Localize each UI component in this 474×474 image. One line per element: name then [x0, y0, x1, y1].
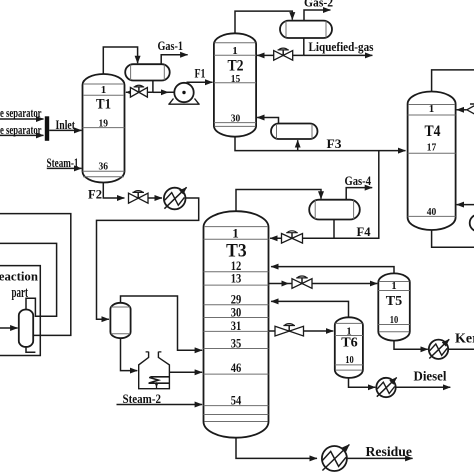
- wire Residue out: [348, 457, 413, 459]
- wire T4 bottoms: [432, 230, 474, 247]
- wire Gas-1: [161, 55, 187, 64]
- wire F3 up into D3: [297, 140, 299, 150]
- exchanger E1: [164, 187, 187, 209]
- svg-text:1: 1: [429, 103, 435, 115]
- drum D3 reboiler: [271, 124, 318, 140]
- wire F1: [187, 81, 213, 83]
- svg-text:30: 30: [231, 113, 241, 125]
- wire Gas-4: [346, 188, 372, 200]
- reaction part box: [0, 266, 40, 356]
- svg-text:Steam-2: Steam-2: [123, 392, 162, 406]
- svg-text:T5: T5: [386, 294, 403, 309]
- column T5: [378, 273, 410, 340]
- svg-text:e separator: e separator: [0, 106, 42, 120]
- wire V top vapor to T3 tray 35: [121, 296, 203, 350]
- svg-text:F4: F4: [357, 225, 372, 239]
- separator feed arrow 2: [0, 134, 44, 136]
- wire Gas-2: [304, 10, 330, 21]
- mixing bar: [45, 116, 49, 141]
- wire T3 tray13 draw to T5: [269, 283, 378, 285]
- svg-text:Gas-4: Gas-4: [345, 174, 372, 188]
- column T1: [83, 74, 125, 183]
- wire D3 vapor return to T2: [257, 118, 278, 124]
- wire Kerosene out: [448, 348, 474, 350]
- svg-text:Inlet: Inlet: [56, 118, 76, 132]
- pump P1: [168, 83, 199, 104]
- column T4: [408, 92, 456, 231]
- wire recycle B: [0, 243, 57, 316]
- wire E1 outlet down-around to vessel V: [97, 198, 199, 319]
- svg-text:Reaction: Reaction: [0, 268, 39, 283]
- furnace H1: [139, 352, 170, 389]
- wire Inlet: [49, 129, 81, 131]
- svg-text:35: 35: [231, 335, 242, 350]
- wire D2 bottom to liquefied line: [303, 38, 305, 55]
- wire T2 bottoms F3: [235, 137, 406, 151]
- valve V1 reflux T1: [130, 85, 147, 97]
- svg-text:Diesel: Diesel: [414, 370, 447, 385]
- wire T4 overhead: [432, 70, 474, 92]
- exchanger E4 residue: [322, 445, 350, 472]
- wire F4 reflux into T3: [270, 237, 334, 239]
- svg-text:13: 13: [231, 271, 242, 286]
- wire reactor bottom: [26, 347, 35, 352]
- drum D1: [125, 64, 170, 80]
- svg-text:15: 15: [231, 73, 241, 85]
- svg-text:Gas-1: Gas-1: [158, 39, 184, 53]
- svg-text:Gas-2: Gas-2: [304, 0, 333, 10]
- svg-text:Residue: Residue: [366, 445, 413, 460]
- svg-text:19: 19: [99, 118, 109, 130]
- wire T5 bottoms to kerosene cooler: [394, 341, 428, 350]
- wire F2 from T1 bottom: [103, 182, 124, 198]
- wire V bottom to furnace: [121, 338, 138, 370]
- exchanger E3 diesel: [376, 378, 396, 398]
- wire T3 tray31 draw to T6: [269, 330, 334, 332]
- wire D1 bottom to reflux and pump: [152, 81, 154, 93]
- svg-text:F1: F1: [195, 66, 206, 80]
- reactor R1: [19, 310, 33, 347]
- drum D2: [280, 21, 332, 38]
- wire T3 overhead to D4: [236, 190, 321, 212]
- svg-text:1: 1: [232, 45, 238, 57]
- wire F4 to T4 feed junction: [334, 151, 379, 239]
- wire T1 overhead: [103, 47, 137, 74]
- separator feed arrow 1: [0, 118, 44, 120]
- svg-text:36: 36: [99, 161, 109, 173]
- valve V3 F2: [129, 191, 149, 204]
- valve V2 T2 reflux: [274, 48, 293, 60]
- svg-text:F3: F3: [327, 137, 342, 151]
- svg-text:T6: T6: [341, 336, 358, 351]
- svg-text:Liquefied-gas: Liquefied-gas: [309, 40, 374, 54]
- svg-text:F2: F2: [88, 187, 102, 201]
- wire Steam-1: [47, 167, 82, 169]
- svg-text:T4: T4: [425, 123, 441, 140]
- column T2: [214, 33, 256, 136]
- wire liquefied reflux into T2: [257, 54, 304, 56]
- wire T4 reflux in: [457, 109, 467, 111]
- wire T3 bottoms to residue cooler: [236, 438, 317, 459]
- valve V7 partial at edge: [467, 104, 474, 115]
- svg-text:Steam-1: Steam-1: [47, 156, 79, 170]
- svg-text:10: 10: [345, 355, 354, 366]
- svg-text:1: 1: [101, 84, 107, 96]
- wire Steam-2: [117, 404, 203, 406]
- wire Diesel out: [396, 386, 451, 388]
- svg-text:46: 46: [231, 360, 242, 375]
- svg-text:54: 54: [231, 392, 242, 407]
- column T3: [204, 211, 269, 438]
- wire Liquefied-gas out: [304, 54, 373, 56]
- svg-text:T1: T1: [96, 97, 111, 113]
- svg-text:1: 1: [391, 281, 396, 292]
- svg-text:1: 1: [232, 226, 239, 241]
- wire T2 overhead: [235, 11, 292, 33]
- column T6: [335, 317, 363, 378]
- wire into T4 tray 40: [457, 204, 474, 206]
- svg-text:40: 40: [427, 206, 437, 218]
- wire valve to exchanger: [148, 197, 162, 199]
- wire D4 bottom: [333, 220, 335, 239]
- valve V5: [292, 276, 312, 288]
- wire recycle A: [0, 214, 71, 336]
- valve V4: [282, 231, 303, 243]
- wire reactor feed arrow: [0, 327, 18, 329]
- wire furnace outlet to T3 tray 46: [169, 371, 202, 373]
- svg-text:17: 17: [427, 142, 437, 154]
- drum partial at right edge: [470, 215, 474, 232]
- valve V6: [275, 324, 304, 336]
- vessel V flash drum: [110, 303, 130, 338]
- wire T6 overhead return to T3 tray 29: [271, 301, 348, 317]
- svg-text:Kerosene: Kerosene: [455, 332, 474, 347]
- svg-text:31: 31: [231, 318, 242, 333]
- wire T6 bottoms to diesel cooler: [349, 378, 376, 387]
- wire reactor top loop: [26, 298, 40, 316]
- svg-text:e separator: e separator: [0, 123, 42, 137]
- drum D4: [309, 200, 360, 220]
- wire T5 overhead return to T3 tray 12: [271, 267, 394, 274]
- exchanger E2 kerosene: [429, 339, 449, 359]
- svg-text:10: 10: [390, 315, 399, 326]
